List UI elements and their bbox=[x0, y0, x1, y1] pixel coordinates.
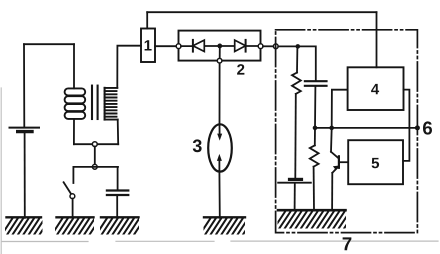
enclosure box 7 (dash-dot frame) bbox=[276, 30, 418, 233]
node (open) lower junction bbox=[92, 164, 97, 169]
wire top bus down to box 4 bbox=[376, 12, 378, 67]
wire switch to ground bbox=[72, 199, 74, 218]
transistor Q1 bbox=[331, 128, 348, 211]
label 2 bbox=[237, 64, 244, 75]
wire top bus bbox=[147, 11, 376, 13]
junction collector branch bbox=[329, 126, 334, 131]
wire battery B1 top to corner bbox=[23, 44, 25, 126]
battery B2 bbox=[278, 179, 311, 182]
spark gap 3 bbox=[208, 124, 232, 171]
wire transformer bottom bus bbox=[74, 143, 118, 145]
wire top-left horizontal bbox=[24, 43, 74, 45]
resistor R1 bbox=[292, 46, 301, 177]
label 4 bbox=[371, 84, 379, 94]
box 2 bbox=[179, 31, 261, 61]
ground (spark gap) bbox=[199, 217, 254, 236]
junction between diodes bbox=[217, 44, 222, 49]
wire junction down to box2 bottom node bbox=[219, 46, 221, 59]
capacitor C1 bbox=[107, 167, 128, 218]
wire box2 right to box7 port bbox=[263, 45, 276, 47]
wire battery B2 to ground bus bbox=[294, 184, 296, 210]
resistor R2 bbox=[310, 128, 319, 211]
diode D1 bbox=[193, 40, 204, 52]
node 6 bbox=[415, 125, 420, 130]
label 7 bbox=[343, 237, 352, 250]
label 1 bbox=[145, 40, 152, 50]
ground (battery B1) bbox=[1, 217, 51, 236]
wire transformer secondary bottom lead bbox=[117, 120, 120, 145]
box 5 bbox=[348, 140, 403, 184]
switch S1 bbox=[64, 182, 75, 198]
wire box4 right to box5 right bbox=[403, 90, 409, 161]
diode D2 bbox=[235, 40, 246, 52]
wire lower horizontal bbox=[73, 166, 118, 168]
node (open) box2 left bbox=[176, 44, 181, 49]
label 5 bbox=[372, 158, 380, 168]
wire box4 left stub to bus bbox=[332, 90, 348, 128]
capacitor C2 bbox=[305, 81, 327, 128]
wire inside box2 bbox=[181, 45, 261, 47]
ground bus (box 7) bbox=[273, 210, 356, 230]
wire box2 bottom down to spark gap bbox=[219, 63, 221, 124]
ground (switch) bbox=[51, 217, 101, 236]
node (open) port on box7 left edge bbox=[273, 44, 278, 49]
node (open) box2 bottom bbox=[217, 58, 222, 63]
wire port to C2 corner bbox=[278, 46, 316, 80]
ground (capacitor C1) bbox=[95, 217, 145, 236]
label 3 bbox=[193, 139, 202, 152]
box 1 bbox=[141, 29, 155, 63]
label 6 bbox=[423, 121, 432, 134]
wire down to switch bbox=[72, 167, 74, 183]
transformer T1 bbox=[65, 86, 118, 120]
wire down to transformer primary bbox=[73, 44, 75, 88]
battery B1 bbox=[10, 128, 40, 132]
wire transformer primary bottom lead bbox=[73, 119, 75, 144]
junction C2/R2 on node-6 bus bbox=[313, 126, 318, 131]
wire battery B1 bottom lead bbox=[24, 133, 26, 218]
node (open) box2 right bbox=[258, 44, 263, 49]
wire node-6 bus bbox=[315, 127, 417, 129]
wire box1 top to top bus bbox=[146, 12, 148, 28]
wire spark gap to ground bbox=[218, 171, 220, 218]
wire transformer secondary top lead bbox=[117, 46, 141, 88]
junction R1 top bbox=[296, 44, 301, 49]
node (open) transformer centre bbox=[92, 142, 97, 147]
wire box1 right to box2 bbox=[155, 45, 179, 47]
wire centre node down bbox=[94, 147, 96, 165]
box 4 bbox=[348, 67, 404, 110]
